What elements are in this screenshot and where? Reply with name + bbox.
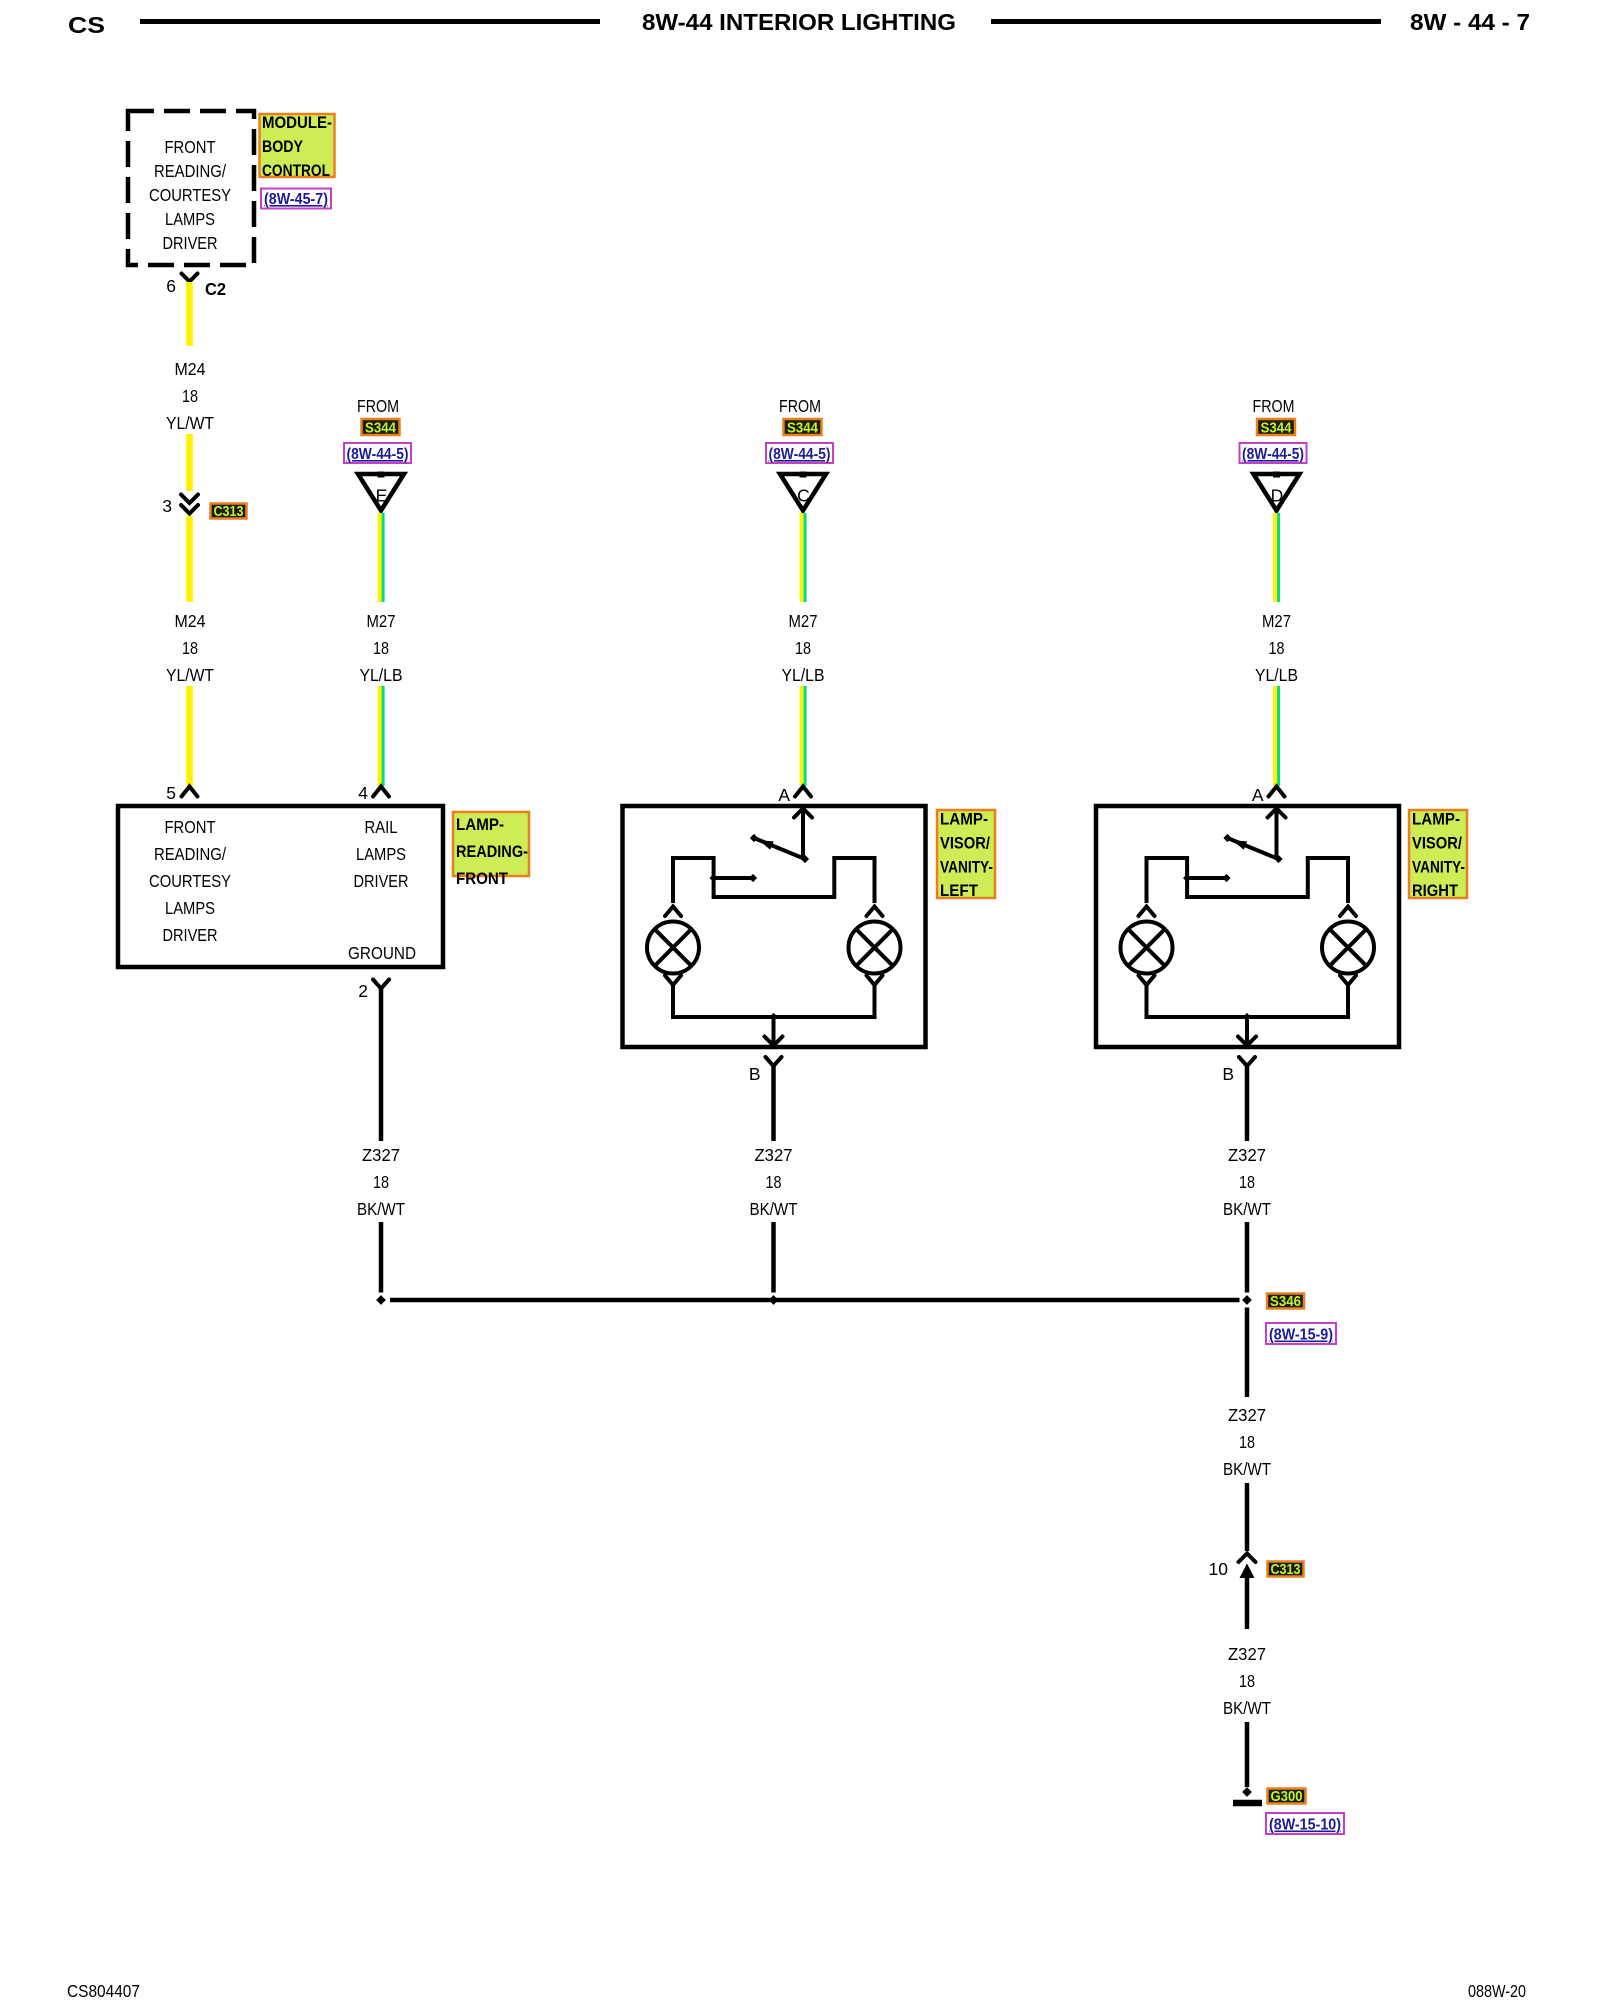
svg-text:FROM: FROM bbox=[357, 396, 399, 416]
switch contact stub bbox=[1187, 876, 1226, 880]
lamp DS2 top connector bbox=[867, 907, 883, 917]
svg-text:COURTESY: COURTESY bbox=[149, 185, 231, 205]
svg-text:VISOR/: VISOR/ bbox=[1412, 835, 1462, 853]
lamp DS1 bottom connector bbox=[1139, 976, 1155, 986]
lamp DS2 (circle-X) bbox=[1322, 922, 1374, 974]
label LAMP-READING-FRONT bbox=[453, 812, 529, 888]
svg-text:BK/WT: BK/WT bbox=[750, 1199, 798, 1219]
svg-text:BK/WT: BK/WT bbox=[357, 1199, 405, 1219]
svg-text:(8W-44-5): (8W-44-5) bbox=[347, 446, 409, 463]
svg-text:Z327: Z327 bbox=[755, 1145, 793, 1165]
wire label M24 18 YL/WT bbox=[166, 611, 214, 685]
wire M24 YL/WT segment 2 bbox=[186, 434, 193, 491]
wire label M27 18 YL/LB bbox=[782, 611, 825, 685]
svg-text:18: 18 bbox=[1239, 1432, 1255, 1452]
splice S346 label bbox=[1267, 1294, 1304, 1311]
module LAMP-READING-FRONT box bbox=[118, 806, 443, 967]
svg-text:C2: C2 bbox=[205, 279, 226, 299]
pin A connector chevron bbox=[795, 787, 811, 797]
wire Z327 BK/WT to ground bbox=[1245, 1722, 1250, 1787]
svg-text:FROM: FROM bbox=[779, 396, 821, 416]
wire M24 YL/WT segment 1 bbox=[186, 282, 193, 346]
svg-text:FRONT: FRONT bbox=[165, 137, 216, 157]
svg-text:LAMP-: LAMP- bbox=[940, 811, 988, 829]
svg-text:A: A bbox=[1252, 785, 1264, 805]
wire to pin B with arrow bbox=[772, 1017, 776, 1045]
svg-text:S346: S346 bbox=[1270, 1294, 1301, 1310]
pin B connector Y bbox=[1239, 1057, 1255, 1066]
wire Z327 BK/WT upper segment bbox=[1245, 1066, 1250, 1141]
label LAMP-VISOR/VANITY-RIGHT bbox=[1409, 810, 1467, 900]
wire M24 YL/WT segment 3 bbox=[186, 516, 193, 602]
svg-text:18: 18 bbox=[182, 638, 198, 658]
svg-text:Z327: Z327 bbox=[1228, 1405, 1266, 1425]
wire switch common from pin A bbox=[1275, 809, 1279, 859]
svg-text:E: E bbox=[376, 486, 388, 506]
svg-text:S344: S344 bbox=[787, 421, 818, 437]
svg-text:6: 6 bbox=[166, 276, 176, 296]
wire switch common from pin A bbox=[801, 809, 805, 859]
svg-text:18: 18 bbox=[766, 1172, 782, 1192]
svg-text:18: 18 bbox=[1239, 1172, 1255, 1192]
svg-text:M24: M24 bbox=[175, 611, 206, 631]
lamp DS2 top connector bbox=[1340, 907, 1356, 917]
link (8W-15-9) bbox=[1266, 1323, 1336, 1344]
svg-text:BODY: BODY bbox=[262, 138, 303, 156]
junction node bbox=[1243, 1013, 1251, 1021]
wire lamp return rail bbox=[1147, 985, 1349, 1017]
svg-text:8W - 44 - 7: 8W - 44 - 7 bbox=[1410, 9, 1530, 35]
wire lamp return rail bbox=[673, 985, 875, 1017]
junction node col1 bbox=[376, 1295, 386, 1305]
link (8W-44-5) bbox=[1240, 443, 1307, 463]
lamp DS2 bottom connector bbox=[867, 976, 883, 986]
svg-text:18: 18 bbox=[373, 638, 389, 658]
svg-text:FRONT: FRONT bbox=[165, 817, 216, 837]
svg-text:FROM: FROM bbox=[1253, 396, 1295, 416]
svg-text:READING/: READING/ bbox=[154, 161, 226, 181]
svg-text:2: 2 bbox=[358, 981, 368, 1001]
wire Z327 BK/WT lower segment bbox=[771, 1222, 776, 1293]
connector C313 symbol (in-line) bbox=[1239, 1554, 1256, 1563]
svg-text:18: 18 bbox=[1239, 1671, 1255, 1691]
svg-text:18: 18 bbox=[373, 1172, 389, 1192]
header rule right bbox=[991, 19, 1381, 24]
svg-text:LAMPS: LAMPS bbox=[165, 898, 215, 918]
svg-text:18: 18 bbox=[182, 386, 198, 406]
wire M24 YL/WT segment 4 bbox=[186, 686, 193, 786]
junction node col3 / splice S346 bbox=[1242, 1295, 1252, 1305]
svg-text:LAMP-: LAMP- bbox=[1412, 811, 1460, 829]
wire label M27 18 YL/LB bbox=[1255, 611, 1298, 685]
wire label Z327 18 BK/WT bbox=[1223, 1145, 1271, 1219]
svg-text:(8W-44-5): (8W-44-5) bbox=[769, 446, 831, 463]
svg-text:S344: S344 bbox=[1261, 421, 1292, 437]
svg-text:18: 18 bbox=[1269, 638, 1285, 658]
wire M27 YL/LB segment 2 bbox=[1273, 686, 1277, 786]
wire lamp feed rail bbox=[673, 858, 875, 903]
connector C313 label bbox=[211, 504, 247, 521]
svg-text:M27: M27 bbox=[367, 611, 396, 631]
module U1 FRONT READING/COURTESY LAMPS DRIVER (BCM, dashed) bbox=[128, 111, 254, 265]
lamp DS2 (circle-X) bbox=[849, 922, 901, 974]
svg-text:Z327: Z327 bbox=[1228, 1644, 1266, 1664]
lamp DS1 bottom connector bbox=[665, 976, 681, 986]
svg-text:COURTESY: COURTESY bbox=[149, 871, 231, 891]
wire label Z327 18 BK/WT bbox=[750, 1145, 798, 1219]
svg-text:088W-20: 088W-20 bbox=[1468, 1981, 1526, 2000]
pin A connector chevron bbox=[1269, 787, 1285, 797]
module LAMP-VISOR/VANITY-RIGHT box bbox=[1096, 806, 1399, 1047]
svg-text:C313: C313 bbox=[1271, 1562, 1301, 1578]
wire Z327 BK/WT upper segment bbox=[379, 989, 384, 1141]
header rule left bbox=[140, 19, 600, 24]
ground G300 label bbox=[1268, 1789, 1306, 1806]
svg-text:GROUND: GROUND bbox=[348, 943, 416, 963]
splice S344 label bbox=[362, 419, 400, 437]
label MODULE-BODY CONTROL bbox=[260, 114, 335, 180]
splice S344 label bbox=[784, 419, 822, 437]
svg-text:Z327: Z327 bbox=[362, 1145, 400, 1165]
svg-text:LAMPS: LAMPS bbox=[356, 844, 406, 864]
link (8W-15-10) bbox=[1266, 1813, 1344, 1834]
wire Z327 BK/WT upper segment bbox=[771, 1066, 776, 1141]
svg-text:C: C bbox=[797, 486, 810, 506]
svg-text:LEFT: LEFT bbox=[940, 882, 978, 900]
wire label Z327 18 BK/WT bbox=[357, 1145, 405, 1219]
wire label M27 18 YL/LB bbox=[360, 611, 403, 685]
svg-text:(8W-15-9): (8W-15-9) bbox=[1269, 1327, 1333, 1344]
svg-text:YL/WT: YL/WT bbox=[166, 665, 214, 685]
svg-text:B: B bbox=[749, 1064, 761, 1084]
svg-text:G300: G300 bbox=[1271, 1789, 1303, 1805]
svg-text:A: A bbox=[778, 785, 790, 805]
wire M27 YL/LB segment 2 bbox=[378, 686, 382, 786]
connector C313 symbol (in-line) bbox=[181, 495, 198, 514]
lamp DS1 (circle-X) bbox=[647, 922, 699, 974]
link (8W-44-5) bbox=[344, 443, 411, 463]
lamp DS1 (circle-X) bbox=[1121, 922, 1173, 974]
svg-text:READING-: READING- bbox=[456, 843, 528, 861]
svg-text:BK/WT: BK/WT bbox=[1223, 1199, 1271, 1219]
wire Z327 BK/WT lower segment bbox=[1245, 1222, 1250, 1293]
pin B connector Y bbox=[766, 1057, 782, 1066]
svg-text:(8W-15-10): (8W-15-10) bbox=[1269, 1817, 1341, 1834]
wire M27 YL/LB segment 2 bbox=[800, 686, 804, 786]
svg-text:BK/WT: BK/WT bbox=[1223, 1698, 1271, 1718]
wire to pin B with arrow bbox=[1245, 1017, 1249, 1045]
svg-text:YL/LB: YL/LB bbox=[360, 665, 403, 685]
svg-text:B: B bbox=[1222, 1064, 1234, 1084]
wire label M24 18 YL/WT bbox=[166, 359, 214, 433]
svg-text:(8W-44-5): (8W-44-5) bbox=[1242, 446, 1304, 463]
svg-text:Z327: Z327 bbox=[1228, 1145, 1266, 1165]
wire Z327 BK/WT lower segment bbox=[379, 1222, 384, 1293]
label LAMP-VISOR/VANITY-LEFT bbox=[937, 810, 995, 900]
wire M27 YL/LB segment 1 bbox=[378, 513, 382, 602]
off-page connector triangle E bbox=[358, 474, 404, 511]
svg-text:RIGHT: RIGHT bbox=[1412, 882, 1458, 900]
link (8W-45-7) bbox=[261, 189, 331, 209]
off-page connector triangle D bbox=[1254, 474, 1300, 511]
svg-text:8W-44 INTERIOR LIGHTING: 8W-44 INTERIOR LIGHTING bbox=[642, 9, 956, 35]
wire lamp feed rail bbox=[1147, 858, 1349, 903]
svg-text:VISOR/: VISOR/ bbox=[940, 835, 990, 853]
svg-text:5: 5 bbox=[166, 783, 176, 803]
svg-text:YL/LB: YL/LB bbox=[1255, 665, 1298, 685]
wire ground bus bbox=[390, 1298, 1240, 1303]
wire M27 YL/LB segment 1 bbox=[800, 513, 804, 602]
junction node col2 bbox=[769, 1295, 779, 1305]
svg-text:CS804407: CS804407 bbox=[67, 1981, 140, 2000]
lamp DS1 top connector bbox=[1139, 907, 1155, 917]
svg-text:VANITY-: VANITY- bbox=[1412, 859, 1465, 877]
connector C2 symbol bbox=[182, 274, 198, 282]
svg-text:3: 3 bbox=[162, 496, 172, 516]
link (8W-44-5) bbox=[766, 443, 833, 463]
wire Z327 BK/WT below S346 bbox=[1245, 1308, 1250, 1398]
svg-text:S344: S344 bbox=[365, 421, 396, 437]
connector C313 label bbox=[1268, 1562, 1304, 1579]
junction node bbox=[769, 1013, 777, 1021]
svg-text:10: 10 bbox=[1209, 1559, 1229, 1579]
svg-text:M27: M27 bbox=[789, 611, 818, 631]
off-page connector triangle C bbox=[780, 474, 826, 511]
svg-text:MODULE-: MODULE- bbox=[262, 114, 332, 132]
switch SW1 blade bbox=[1274, 855, 1282, 863]
svg-text:RAIL: RAIL bbox=[365, 817, 398, 837]
svg-text:BK/WT: BK/WT bbox=[1223, 1459, 1271, 1479]
svg-text:VANITY-: VANITY- bbox=[940, 859, 993, 877]
pin 4 connector chevron bbox=[373, 787, 389, 797]
module LAMP-VISOR/VANITY-LEFT box bbox=[623, 806, 926, 1047]
svg-text:YL/LB: YL/LB bbox=[782, 665, 825, 685]
ground G300 symbol bbox=[1242, 1787, 1252, 1797]
svg-text:READING/: READING/ bbox=[154, 844, 226, 864]
svg-text:YL/WT: YL/WT bbox=[166, 413, 214, 433]
pin 2 connector Y bbox=[373, 980, 389, 989]
svg-text:DRIVER: DRIVER bbox=[163, 233, 218, 253]
svg-text:DRIVER: DRIVER bbox=[354, 871, 409, 891]
pin 5 connector chevron bbox=[182, 787, 198, 797]
svg-text:C313: C313 bbox=[214, 504, 244, 520]
svg-text:DRIVER: DRIVER bbox=[163, 925, 218, 945]
lamp DS2 bottom connector bbox=[1340, 976, 1356, 986]
lamp DS1 top connector bbox=[665, 907, 681, 917]
svg-text:CS: CS bbox=[68, 12, 105, 38]
svg-text:M27: M27 bbox=[1262, 611, 1291, 631]
svg-text:LAMP-: LAMP- bbox=[456, 816, 504, 834]
wire label Z327 18 BK/WT bbox=[1223, 1644, 1271, 1718]
svg-text:4: 4 bbox=[358, 783, 368, 803]
svg-text:D: D bbox=[1271, 486, 1284, 506]
wire label Z327 18 BK/WT bbox=[1223, 1405, 1271, 1479]
svg-text:LAMPS: LAMPS bbox=[165, 209, 215, 229]
switch contact stub bbox=[714, 876, 753, 880]
svg-text:CONTROL: CONTROL bbox=[262, 162, 330, 180]
svg-text:M24: M24 bbox=[175, 359, 206, 379]
svg-text:FRONT: FRONT bbox=[456, 870, 508, 888]
svg-text:(8W-45-7): (8W-45-7) bbox=[264, 191, 328, 208]
switch SW1 blade bbox=[801, 855, 809, 863]
wire Z327 BK/WT to C313 bbox=[1245, 1483, 1250, 1551]
splice S344 label bbox=[1257, 419, 1295, 437]
svg-text:18: 18 bbox=[795, 638, 811, 658]
wire M27 YL/LB segment 1 bbox=[1273, 513, 1277, 602]
